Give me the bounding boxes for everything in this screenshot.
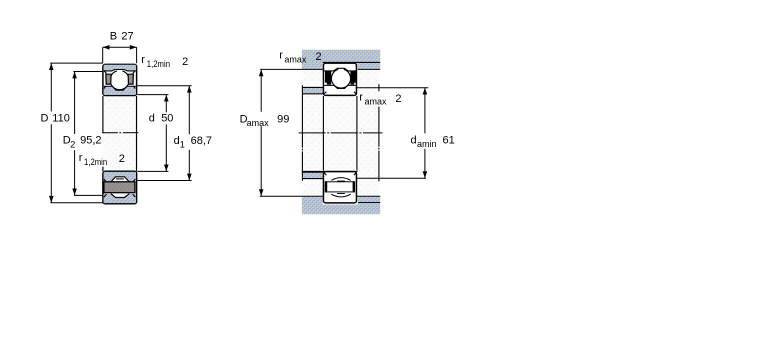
section box outline	[103, 64, 137, 95]
raceway edge inside notch	[116, 178, 124, 180]
svg-text:1,2min: 1,2min	[84, 157, 107, 167]
outer ring section with shield notch (blue)	[104, 194, 136, 203]
faint hatch region	[303, 70, 379, 197]
d_amin dimension line	[424, 88, 426, 178]
shield left (black)	[325, 71, 331, 85]
housing bore line bottom right	[358, 202, 380, 204]
ball	[110, 71, 129, 90]
bore silhouette lines	[103, 96, 137, 171]
svg-text:r: r	[141, 54, 145, 66]
svg-text:2: 2	[316, 51, 322, 63]
svg-text:2: 2	[182, 56, 188, 68]
B dimension extension lines	[103, 47, 137, 63]
d1 dimension extension lines	[137, 86, 191, 181]
housing shoulder line right	[358, 68, 381, 70]
svg-text:B: B	[110, 30, 117, 42]
faint hatch in bore region	[103, 96, 137, 171]
corner marks	[104, 71, 136, 89]
svg-text:27: 27	[121, 30, 133, 42]
inner raceway boundary	[104, 86, 136, 90]
svg-text:r: r	[359, 91, 363, 103]
svg-text:d: d	[411, 134, 417, 146]
D2 dimension extension lines	[73, 72, 105, 196]
B dimension line	[103, 46, 137, 48]
shaft shoulder top (blue)	[303, 88, 323, 93]
outer ring section (blue)	[104, 65, 136, 71]
svg-text:1: 1	[180, 139, 185, 149]
shaft shoulder face line	[301, 85, 303, 181]
inner silhouette notch	[331, 178, 350, 181]
D2 dimension line	[74, 72, 76, 196]
outer raceway boundary	[324, 68, 356, 71]
bore silhouette lines	[323, 96, 357, 171]
housing section bottom (blue)	[302, 197, 380, 215]
svg-text:95,2: 95,2	[80, 135, 101, 147]
shield notch silhouette top	[111, 177, 129, 182]
d dimension line	[165, 95, 167, 171]
svg-text:99: 99	[277, 113, 289, 125]
svg-text:61: 61	[443, 134, 455, 146]
d dimension extension lines	[137, 95, 168, 172]
svg-text:2: 2	[119, 153, 125, 165]
svg-text:50: 50	[161, 112, 173, 124]
bearing axis centerline	[102, 132, 138, 134]
svg-text:2: 2	[70, 139, 75, 149]
corner marks	[324, 92, 356, 94]
ball	[331, 69, 350, 88]
housing shoulder line right bottom	[357, 195, 380, 197]
tick on d_a extension	[378, 84, 380, 91]
svg-text:amax: amax	[365, 97, 388, 107]
d_a level extension line right	[357, 87, 428, 89]
shield right	[128, 74, 133, 84]
svg-text:D: D	[41, 112, 49, 124]
corner marks	[104, 179, 136, 197]
corner marks	[324, 173, 356, 175]
section box outline	[103, 171, 137, 204]
shield right (black)	[350, 71, 356, 85]
section box	[323, 172, 356, 203]
D dimension line	[50, 63, 52, 202]
housing bore line	[323, 61, 381, 63]
svg-text:110: 110	[52, 112, 70, 124]
svg-text:d: d	[149, 112, 155, 124]
shaft shoulder bottom (blue)	[303, 173, 323, 178]
d1 dimension line	[188, 86, 190, 180]
svg-text:d: d	[174, 135, 180, 147]
svg-text:2: 2	[395, 93, 401, 105]
svg-text:amax: amax	[284, 55, 307, 65]
shield front view	[104, 182, 135, 193]
svg-text:1,2min: 1,2min	[147, 59, 170, 69]
svg-text:r: r	[79, 152, 83, 164]
section box	[323, 63, 356, 95]
D_amax dimension line	[260, 70, 262, 196]
svg-text:r: r	[279, 49, 283, 61]
inner ring section (blue)	[104, 86, 136, 95]
ball silhouette edge bottom	[337, 193, 345, 195]
inner ring section with shield notch (blue)	[104, 172, 136, 182]
axis centerline right figure	[299, 132, 383, 134]
shield front view (white with black side bars)	[325, 182, 354, 192]
svg-text:amin: amin	[417, 139, 437, 149]
housing section top (blue)	[302, 50, 380, 70]
d_a level extension line bottom right	[357, 177, 426, 179]
housing shoulder line left bottom / D_amax bottom extension	[260, 195, 323, 197]
outer raceway boundary	[104, 70, 136, 71]
housing shoulder line left / D_amax top extension	[260, 68, 322, 70]
shield left	[106, 74, 111, 84]
inner raceway boundary	[324, 85, 356, 88]
outer silhouette notch	[331, 194, 350, 197]
svg-text:amax: amax	[247, 118, 270, 128]
shaft seat line bottom	[302, 170, 358, 172]
r_a boundary vertical line	[378, 107, 380, 182]
svg-text:68,7: 68,7	[191, 135, 212, 147]
shield notch silhouette bottom	[111, 194, 129, 198]
D dimension extension lines	[50, 63, 103, 203]
ball silhouette edge top	[337, 180, 345, 182]
